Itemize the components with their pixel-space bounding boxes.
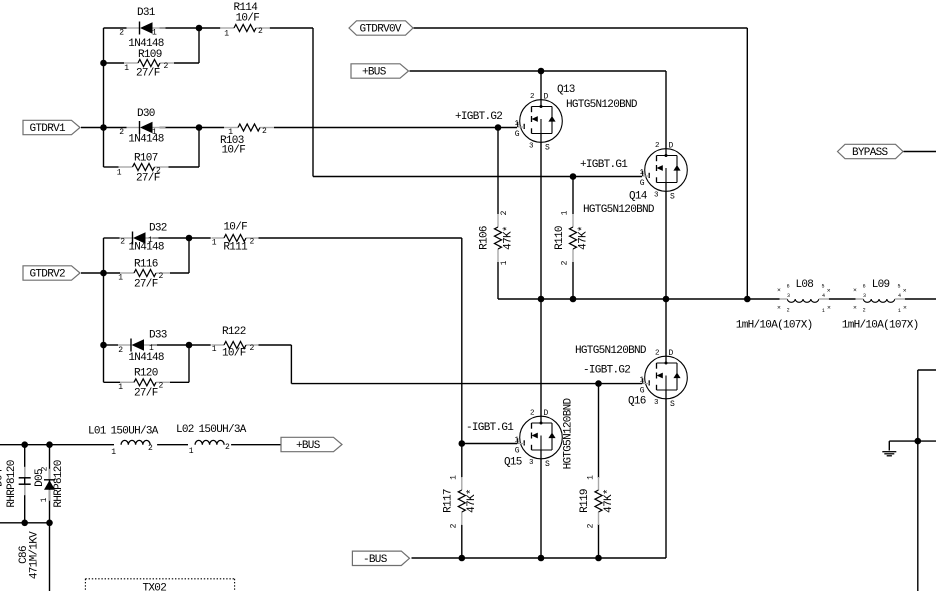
svg-text:2: 2 <box>225 443 230 452</box>
svg-text:2: 2 <box>530 410 535 418</box>
svg-text:1: 1 <box>152 29 157 38</box>
svg-text:R117: R117 <box>443 489 455 513</box>
svg-text:10/F: 10/F <box>223 221 247 233</box>
svg-text:2: 2 <box>561 260 570 265</box>
svg-text:GTDRV0V: GTDRV0V <box>360 24 402 36</box>
svg-text:4: 4 <box>898 293 901 299</box>
svg-text:HGTG5N120BND: HGTG5N120BND <box>566 99 638 111</box>
svg-text:Q13: Q13 <box>557 84 575 96</box>
svg-text:1: 1 <box>111 448 116 457</box>
svg-text:2: 2 <box>118 346 123 355</box>
svg-text:S: S <box>670 400 675 409</box>
svg-text:1: 1 <box>561 210 570 215</box>
svg-text:6: 6 <box>787 284 790 290</box>
svg-text:D33: D33 <box>149 330 167 342</box>
svg-text:1: 1 <box>898 308 901 314</box>
svg-text:1: 1 <box>228 128 233 137</box>
svg-text:L09: L09 <box>872 279 890 291</box>
svg-text:2: 2 <box>500 210 509 215</box>
svg-text:2: 2 <box>787 307 790 313</box>
svg-text:2: 2 <box>159 382 164 391</box>
svg-text:1: 1 <box>124 64 129 73</box>
svg-text:1mH/10A(107X): 1mH/10A(107X) <box>736 319 813 331</box>
svg-text:3: 3 <box>529 143 534 151</box>
svg-text:×: × <box>777 304 781 311</box>
svg-text:1: 1 <box>117 169 122 178</box>
svg-text:2: 2 <box>450 523 459 528</box>
svg-text:2: 2 <box>119 128 124 137</box>
svg-text:D: D <box>544 92 549 101</box>
svg-text:1N4148: 1N4148 <box>128 352 164 364</box>
svg-text:2: 2 <box>156 167 161 176</box>
svg-text:2: 2 <box>250 344 255 353</box>
svg-text:1: 1 <box>152 128 157 137</box>
svg-text:1: 1 <box>40 497 49 502</box>
svg-text:HGTG5N120BND: HGTG5N120BND <box>563 398 575 470</box>
svg-text:1: 1 <box>148 236 153 245</box>
svg-text:2: 2 <box>863 307 866 313</box>
svg-text:2: 2 <box>655 142 660 150</box>
svg-text:4: 4 <box>822 293 825 299</box>
svg-text:1: 1 <box>212 239 217 248</box>
svg-text:10/F: 10/F <box>236 13 260 25</box>
svg-text:1: 1 <box>587 475 596 480</box>
svg-text:S: S <box>545 144 550 153</box>
svg-text:+IGBT.G1: +IGBT.G1 <box>580 159 628 171</box>
svg-text:1: 1 <box>149 344 154 353</box>
svg-text:×: × <box>853 304 857 311</box>
svg-text:×: × <box>827 305 831 312</box>
svg-text:47K*: 47K* <box>577 226 589 250</box>
svg-text:HGTG5N120BND: HGTG5N120BND <box>575 345 647 357</box>
svg-text:BYPASS: BYPASS <box>852 147 889 159</box>
svg-text:1: 1 <box>189 447 194 456</box>
svg-text:G: G <box>640 179 645 188</box>
svg-text:D31: D31 <box>137 7 156 19</box>
svg-text:L08: L08 <box>796 279 814 291</box>
svg-text:6: 6 <box>863 284 866 290</box>
svg-text:R107: R107 <box>134 153 158 165</box>
svg-text:3: 3 <box>529 459 534 467</box>
svg-text:1: 1 <box>450 475 459 480</box>
svg-text:S: S <box>670 193 675 202</box>
svg-text:3: 3 <box>787 293 790 299</box>
svg-text:G: G <box>640 387 645 396</box>
svg-text:D: D <box>669 349 674 358</box>
svg-text:10/F: 10/F <box>222 348 246 360</box>
svg-text:47K*: 47K* <box>502 226 514 250</box>
svg-text:2: 2 <box>120 238 125 247</box>
svg-text:R110: R110 <box>554 226 566 250</box>
svg-text:5: 5 <box>898 284 901 290</box>
svg-text:150UH/3A: 150UH/3A <box>111 426 159 438</box>
svg-text:1: 1 <box>514 437 519 445</box>
svg-text:1: 1 <box>639 377 644 385</box>
svg-text:R122: R122 <box>222 326 246 338</box>
svg-text:+IGBT.G2: +IGBT.G2 <box>455 111 502 123</box>
svg-text:2: 2 <box>530 93 535 101</box>
svg-text:D32: D32 <box>149 223 167 235</box>
svg-text:+BUS: +BUS <box>296 440 321 452</box>
svg-text:1N4148: 1N4148 <box>128 242 164 254</box>
svg-text:D30: D30 <box>137 108 155 120</box>
svg-text:1mH/10A(107X): 1mH/10A(107X) <box>842 319 919 331</box>
svg-text:1: 1 <box>224 30 229 39</box>
svg-text:R116: R116 <box>134 259 158 271</box>
svg-text:2: 2 <box>587 523 596 528</box>
svg-text:1: 1 <box>118 383 123 392</box>
svg-text:3: 3 <box>654 192 659 200</box>
svg-text:2: 2 <box>159 272 164 281</box>
svg-text:-IGBT.G1: -IGBT.G1 <box>466 422 514 434</box>
svg-text:1: 1 <box>500 260 509 265</box>
svg-text:Q15: Q15 <box>504 457 522 469</box>
svg-text:D: D <box>544 409 549 418</box>
svg-text:1: 1 <box>639 169 644 177</box>
svg-text:2: 2 <box>148 444 153 453</box>
svg-text:L01: L01 <box>88 426 107 438</box>
svg-text:2: 2 <box>119 29 124 38</box>
svg-text:GTDRV2: GTDRV2 <box>30 269 66 281</box>
svg-text:R119: R119 <box>579 489 591 513</box>
svg-text:R120: R120 <box>134 368 158 380</box>
svg-text:×: × <box>903 305 907 312</box>
svg-text:L02: L02 <box>176 424 194 436</box>
svg-text:471M/1KV: 471M/1KV <box>29 531 41 579</box>
svg-text:×: × <box>827 287 831 294</box>
svg-text:1: 1 <box>822 308 825 314</box>
svg-text:3: 3 <box>654 399 659 407</box>
svg-text:G: G <box>515 130 520 139</box>
svg-text:Q16: Q16 <box>628 396 646 408</box>
svg-text:2: 2 <box>41 466 50 471</box>
svg-text:×: × <box>777 287 781 294</box>
svg-text:2: 2 <box>262 127 267 136</box>
svg-text:×: × <box>853 287 857 294</box>
svg-text:×: × <box>903 287 907 294</box>
svg-text:D04: D04 <box>0 468 6 487</box>
svg-text:150UH/3A: 150UH/3A <box>199 424 247 436</box>
svg-text:R106: R106 <box>479 226 491 250</box>
svg-text:-IGBT.G2: -IGBT.G2 <box>583 365 630 377</box>
svg-text:GTDRV1: GTDRV1 <box>30 123 67 135</box>
svg-text:TX02: TX02 <box>143 583 167 591</box>
svg-text:RHRP8120: RHRP8120 <box>6 460 18 507</box>
svg-text:1: 1 <box>118 274 123 283</box>
svg-text:R109: R109 <box>138 49 162 61</box>
svg-text:HGTG5N120BND: HGTG5N120BND <box>583 204 655 216</box>
svg-text:1N4148: 1N4148 <box>128 134 164 146</box>
svg-text:27/F: 27/F <box>136 68 160 80</box>
svg-text:2: 2 <box>250 238 255 247</box>
svg-text:27/F: 27/F <box>134 388 158 400</box>
svg-text:5: 5 <box>822 284 825 290</box>
svg-text:27/F: 27/F <box>134 279 158 291</box>
svg-text:2: 2 <box>164 62 169 71</box>
svg-text:G: G <box>515 447 520 456</box>
svg-text:1: 1 <box>514 120 519 128</box>
svg-text:R111: R111 <box>223 242 248 254</box>
svg-text:2: 2 <box>655 350 660 358</box>
svg-text:S: S <box>545 460 550 469</box>
svg-text:10/F: 10/F <box>222 145 246 157</box>
svg-text:+BUS: +BUS <box>362 67 387 79</box>
svg-text:47K*: 47K* <box>466 489 478 513</box>
svg-text:2: 2 <box>258 27 263 36</box>
svg-text:47K*: 47K* <box>603 489 615 513</box>
svg-text:RHRP8120: RHRP8120 <box>53 460 65 507</box>
svg-text:1: 1 <box>212 345 217 354</box>
svg-text:-BUS: -BUS <box>363 554 388 566</box>
svg-text:3: 3 <box>863 293 866 299</box>
svg-text:D: D <box>669 141 674 150</box>
svg-text:Q14: Q14 <box>629 191 648 203</box>
